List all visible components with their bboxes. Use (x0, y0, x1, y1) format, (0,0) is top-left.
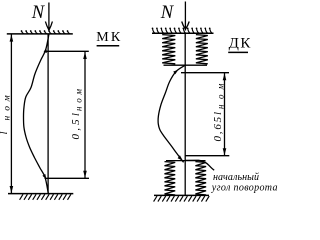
leader line to label (185, 160, 214, 170)
force arrowhead (right) (182, 22, 186, 29)
dim arrow down (0,5l) (83, 171, 87, 178)
dim arrow down (0,65l) (223, 148, 227, 155)
svg-text:МК: МК (96, 30, 122, 45)
curve arrow bottom (left) (42, 174, 46, 179)
column axis (right) (184, 33, 186, 195)
bar under top springs (164, 64, 208, 66)
bottom support line (left) (8, 193, 73, 195)
svg-text:ном: ном (215, 78, 225, 109)
svg-text:N: N (31, 3, 46, 23)
svg-text:ном: ном (3, 90, 13, 120)
dim arrow up (0,5l) (83, 52, 87, 59)
top support hatching (right) (152, 27, 213, 33)
bottom support hatching (right) (154, 196, 210, 202)
dimension line 0,65l (224, 73, 226, 156)
dimension line 0,5l (84, 52, 86, 178)
force line N (left) (48, 3, 50, 32)
top support line (left) (7, 33, 73, 35)
dim arrow up (0,65l) (223, 73, 227, 80)
bottom support hatching (left) (20, 194, 71, 200)
label 0,5l ном (rotated) (70, 85, 83, 139)
svg-text:ДК: ДК (229, 36, 252, 52)
svg-text:l: l (0, 131, 10, 134)
bottom spring right (195, 162, 206, 195)
label l ном (rotated) (0, 90, 13, 134)
caption МК underline (97, 45, 120, 47)
svg-text:ном: ном (74, 85, 84, 111)
column axis (left) (47, 34, 49, 194)
extension line bottom (0,65l) (186, 155, 230, 157)
dimension line l ном (10, 34, 12, 193)
svg-text:N: N (160, 3, 175, 23)
bar over bottom springs (166, 160, 206, 162)
bottom spring left (165, 162, 176, 195)
force arrowhead (left) (45, 22, 48, 30)
svg-text:0,5l: 0,5l (70, 110, 82, 140)
dim arrow up (l ном) (10, 35, 14, 42)
top support hatching (left) (21, 30, 70, 34)
curve arrow bottom (right) (178, 155, 183, 160)
buckled curve (right) (158, 65, 185, 162)
top support line (right) (152, 32, 214, 34)
svg-text:0,65l: 0,65l (212, 110, 224, 141)
top spring right (196, 35, 208, 64)
extension line top (0,65l) (181, 72, 229, 74)
dim arrow down (l ном) (10, 186, 14, 193)
caption ДК underline (228, 51, 248, 53)
label 0,65l ном (rotated) (212, 78, 225, 141)
extension line bottom (0,5l) (45, 177, 90, 179)
svg-text:угол поворота: угол поворота (211, 183, 278, 194)
top spring left (162, 35, 175, 64)
buckled curve (left) (24, 34, 49, 193)
extension line top (0,5l) (46, 50, 89, 52)
force line N (right) (184, 2, 186, 31)
bottom support line (right) (154, 194, 209, 196)
curve arrow top (right) (173, 70, 178, 75)
curve arrow top (left, inflection marker) (44, 47, 47, 53)
